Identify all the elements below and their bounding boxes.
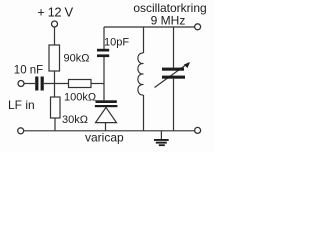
svg-text:LF in: LF in — [8, 98, 35, 112]
svg-text:10pF: 10pF — [104, 36, 129, 48]
svg-text:90kΩ: 90kΩ — [64, 52, 90, 64]
svg-text:100kΩ: 100kΩ — [64, 92, 96, 104]
svg-text:+ 12 V: + 12 V — [37, 5, 73, 20]
svg-text:9 MHz: 9 MHz — [151, 13, 186, 27]
svg-text:varicap: varicap — [85, 131, 124, 145]
svg-text:30kΩ: 30kΩ — [62, 114, 88, 126]
svg-text:10 nF: 10 nF — [14, 65, 43, 77]
